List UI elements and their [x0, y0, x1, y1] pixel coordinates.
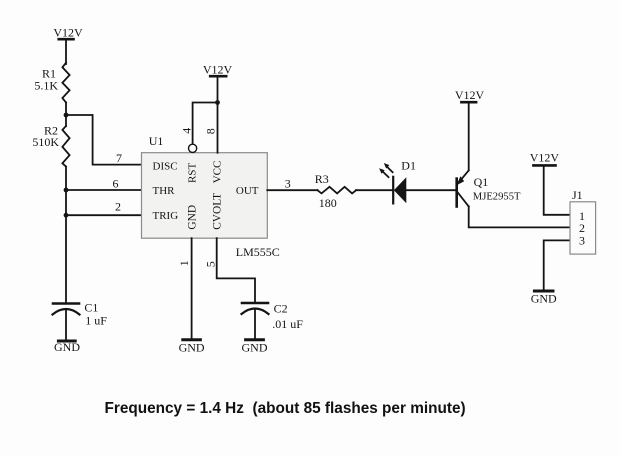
wire Q1 emitter to V12V	[468, 103, 470, 170]
svg-text:1: 1	[177, 260, 191, 266]
svg-text:J1: J1	[572, 188, 583, 202]
transistor Q1	[457, 170, 469, 206]
svg-text:OUT: OUT	[236, 185, 259, 197]
node TRIG junction	[64, 213, 69, 218]
svg-text:V12V: V12V	[530, 151, 560, 165]
wire THR pin 6	[66, 189, 142, 191]
svg-text:U1: U1	[149, 134, 164, 148]
LED D1	[379, 163, 406, 203]
svg-text:Frequency = 1.4 Hz (about 85: Frequency = 1.4 Hz (about 85 flashes per…	[105, 400, 466, 417]
node THR junction	[64, 188, 69, 193]
svg-text:1 uF: 1 uF	[85, 314, 107, 328]
power V12V net at R1 top	[59, 39, 74, 64]
svg-text:V12V: V12V	[203, 63, 233, 77]
svg-text:GND: GND	[179, 341, 205, 355]
svg-text:VCC: VCC	[212, 161, 224, 184]
wire D1 to Q1 base	[406, 189, 455, 191]
RST bubble	[189, 144, 197, 152]
wire CVOLT pin 5	[217, 238, 255, 302]
ground at pin 1	[183, 338, 201, 341]
capacitor C1	[53, 304, 80, 341]
wire GND pin 1	[191, 238, 193, 339]
wire DISC pin 7	[66, 115, 142, 165]
svg-text:LM555C: LM555C	[236, 245, 280, 259]
svg-text:3: 3	[285, 177, 291, 191]
ground at J1	[534, 290, 553, 293]
svg-text:C1: C1	[84, 301, 98, 315]
connector J1 body	[570, 202, 596, 254]
node R1/R2 junction	[64, 113, 69, 118]
resistor R2	[62, 126, 69, 167]
power V12V net at VCC	[210, 75, 226, 78]
resistor R3	[318, 187, 357, 194]
wire OUT pin 3	[267, 189, 317, 191]
svg-text:RST: RST	[187, 163, 199, 183]
ground at C1	[58, 340, 75, 343]
svg-text:GND: GND	[242, 341, 268, 355]
op-amp U1 body (LM555C)	[142, 153, 268, 239]
capacitor C2	[242, 303, 269, 339]
power V12V net at J1	[533, 164, 555, 167]
svg-text:8: 8	[204, 128, 218, 134]
svg-text:TRIG: TRIG	[153, 210, 179, 222]
svg-text:510K: 510K	[32, 135, 59, 149]
svg-text:7: 7	[116, 151, 122, 165]
wire R1 to R2	[65, 103, 67, 127]
svg-text:3: 3	[579, 233, 585, 247]
wire Q1 collector to J1 pin 2	[469, 207, 570, 228]
svg-text:D1: D1	[401, 158, 416, 172]
svg-text:2: 2	[115, 200, 121, 214]
wire left rail down to C1	[65, 167, 67, 303]
svg-text:Q1: Q1	[474, 175, 489, 189]
svg-text:5.1K: 5.1K	[34, 79, 58, 93]
svg-text:6: 6	[113, 176, 119, 190]
wire R3 to D1	[356, 189, 393, 191]
svg-text:V12V: V12V	[455, 88, 485, 102]
svg-text:4: 4	[179, 128, 193, 134]
wire RST pin 4	[193, 103, 218, 145]
wire V12V to J1 pin 1	[544, 166, 570, 214]
wire TRIG pin 2	[66, 214, 142, 216]
svg-text:R3: R3	[315, 172, 329, 186]
node VCC/RST junction	[215, 100, 220, 105]
svg-text:CVOLT: CVOLT	[212, 193, 224, 230]
svg-text:C2: C2	[274, 301, 288, 315]
power V12V net at Q1	[461, 101, 476, 104]
svg-text:.01 uF: .01 uF	[272, 317, 303, 331]
svg-text:5: 5	[204, 261, 218, 267]
svg-text:V12V: V12V	[53, 26, 83, 40]
svg-text:GND: GND	[54, 340, 80, 354]
wire J1 pin 3 to ground	[544, 240, 570, 290]
svg-text:180: 180	[319, 196, 337, 210]
svg-text:MJE2955T: MJE2955T	[473, 191, 521, 202]
svg-text:DISC: DISC	[153, 161, 178, 173]
resistor R1	[62, 63, 69, 103]
svg-text:THR: THR	[153, 185, 176, 197]
ground at C2	[246, 338, 264, 341]
wire VCC pin 8	[217, 77, 219, 153]
svg-text:GND: GND	[187, 205, 199, 230]
svg-text:GND: GND	[531, 292, 557, 306]
